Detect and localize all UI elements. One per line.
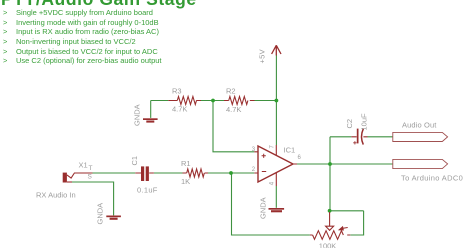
svg-text:0.1uF: 0.1uF (137, 185, 158, 194)
svg-text:Audio Out: Audio Out (402, 121, 437, 130)
svg-text:+5V: +5V (258, 49, 267, 63)
svg-text:100K: 100K (319, 241, 337, 248)
svg-text:R3: R3 (172, 87, 182, 96)
svg-text:6: 6 (298, 155, 302, 161)
svg-text:10uF: 10uF (360, 113, 369, 131)
svg-text:4.7K: 4.7K (172, 105, 187, 114)
svg-text:C2: C2 (345, 119, 354, 129)
svg-text:To Arduino ADC0: To Arduino ADC0 (401, 174, 463, 183)
svg-text:2: 2 (252, 167, 256, 173)
svg-text:T: T (89, 165, 93, 172)
svg-text:7: 7 (270, 145, 276, 149)
svg-text:S: S (88, 174, 93, 181)
svg-text:R2: R2 (226, 87, 236, 96)
svg-text:R1: R1 (181, 159, 191, 168)
svg-text:X1: X1 (79, 160, 88, 169)
svg-text:C1: C1 (130, 156, 139, 166)
svg-text:GNDA: GNDA (96, 203, 105, 225)
svg-text:1K: 1K (181, 177, 190, 186)
svg-text:GNDA: GNDA (259, 197, 268, 219)
svg-text:GNDA: GNDA (133, 104, 142, 126)
svg-text:4.7K: 4.7K (226, 105, 241, 114)
svg-text:RX Audio In: RX Audio In (36, 191, 76, 200)
svg-text:4: 4 (270, 181, 276, 185)
svg-text:IC1: IC1 (284, 145, 296, 154)
